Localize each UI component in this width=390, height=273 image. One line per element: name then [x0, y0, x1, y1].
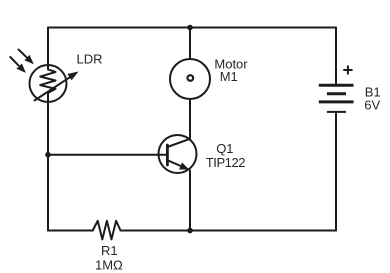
svg-text:Q1: Q1: [216, 141, 233, 156]
resistor R1 zigzag: [93, 221, 121, 240]
wire bottom rail right of R1: [121, 230, 337, 232]
transistor Q1 emitter line: [167, 160, 183, 167]
svg-text:6V: 6V: [364, 97, 380, 112]
battery B1 plate 1 long: [319, 84, 354, 87]
wire base: [48, 154, 167, 156]
wire motor top branch: [189, 28, 191, 60]
light arrow 1 shaft: [19, 50, 27, 58]
light arrow 1 head: [24, 55, 33, 64]
wire left rail lower: [47, 93, 49, 231]
wire right rail lower: [335, 113, 337, 231]
transistor Q1 body circle: [159, 135, 197, 173]
light arrow 2 head: [17, 64, 26, 73]
battery plus sign: [344, 69, 352, 71]
svg-text:M1: M1: [220, 69, 238, 84]
LDR photoresistor body circle: [30, 65, 67, 102]
transistor Q1 base bar: [166, 145, 169, 165]
junction dot top (motor / top rail): [187, 25, 193, 31]
junction dot base (left rail / base wire): [45, 152, 51, 158]
wire bottom rail left of R1: [48, 230, 93, 232]
LDR diagonal arrowhead: [67, 72, 78, 81]
svg-text:R1: R1: [101, 243, 118, 258]
svg-text:TIP122: TIP122: [206, 155, 245, 170]
transistor Q1 collector line: [167, 139, 190, 147]
wire right rail upper: [335, 28, 337, 84]
battery B1 plate 2 short: [327, 92, 346, 95]
wire top rail: [48, 27, 336, 29]
wire emitter to bottom rail: [189, 171, 191, 231]
motor M1 inner ellipse: [187, 75, 193, 81]
svg-text:1MΩ: 1MΩ: [95, 257, 123, 272]
battery B1 plate 3 long: [319, 100, 354, 103]
LDR zigzag element: [40, 69, 55, 92]
wire left rail upper: [47, 28, 49, 70]
LDR diagonal arrow shaft: [35, 77, 71, 101]
junction dot bottom (emitter / bottom rail): [187, 228, 193, 234]
light arrow 2 shaft: [10, 57, 18, 65]
motor M1 body circle: [170, 59, 210, 99]
svg-text:LDR: LDR: [77, 52, 103, 67]
transistor Q1 emitter arrowhead: [179, 163, 189, 170]
wire motor to collector: [189, 99, 191, 140]
battery B1 plate 4 short: [327, 111, 346, 113]
